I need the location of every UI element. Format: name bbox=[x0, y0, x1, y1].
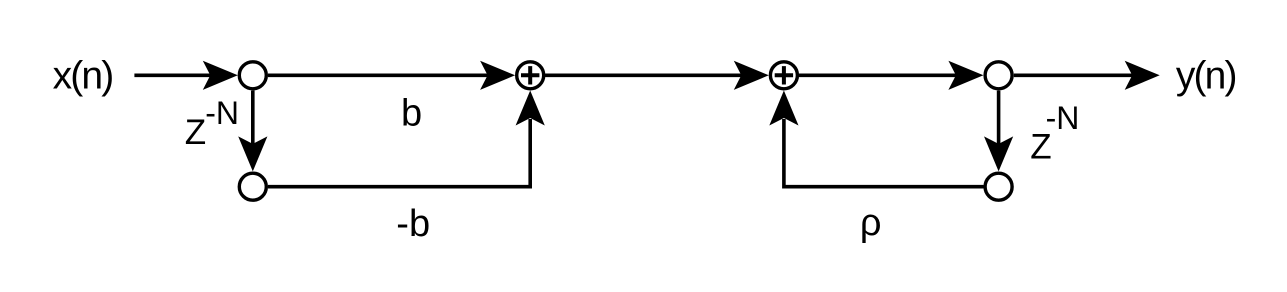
feedback wire lower-right node to sum2 bbox=[784, 119, 984, 187]
wire sum1 to sum2 bbox=[545, 74, 743, 78]
wire node1 to sum1 bbox=[268, 74, 490, 78]
wire node1 down to delay node bbox=[251, 91, 255, 145]
wire node2 down to delay node bbox=[997, 91, 1001, 145]
plus sign in sum1 bbox=[521, 66, 539, 84]
svg-text:-N: -N bbox=[205, 95, 239, 131]
svg-text:y(n): y(n) bbox=[1176, 54, 1236, 97]
arrow into sum2 bbox=[734, 61, 769, 90]
wire sum2 to node2 bbox=[799, 74, 959, 78]
node 2 (top-right pick-off circle) bbox=[985, 62, 1012, 89]
wire node2 to output bbox=[1014, 74, 1134, 78]
plus sign in sum2 bbox=[775, 66, 793, 84]
arrow into sum1 bbox=[480, 61, 515, 90]
arrow down into lower-right node bbox=[984, 136, 1013, 171]
svg-text:x(n): x(n) bbox=[53, 54, 113, 97]
output arrow bbox=[1125, 61, 1160, 90]
wire input to node1 bbox=[134, 74, 212, 78]
svg-text:ρ: ρ bbox=[860, 202, 882, 244]
lower-right node circle bbox=[985, 173, 1012, 200]
summing junction 2 bbox=[770, 62, 797, 89]
svg-text:-N: -N bbox=[1046, 100, 1080, 136]
arrow into node2 bbox=[948, 61, 983, 90]
svg-text:b: b bbox=[401, 93, 422, 135]
lower-left node circle bbox=[239, 173, 266, 200]
svg-text:Z: Z bbox=[185, 113, 206, 152]
arrow down into lower-left node bbox=[238, 136, 267, 171]
arrow into node1 bbox=[203, 61, 238, 90]
arrow up into sum2 bbox=[769, 91, 798, 126]
arrow up into sum1 bbox=[516, 91, 545, 126]
node 1 (top-left pick-off circle) bbox=[239, 62, 266, 89]
feedforward wire lower-left node to sum1 bbox=[268, 119, 530, 187]
svg-text:-b: -b bbox=[396, 203, 430, 245]
summing junction 1 bbox=[517, 62, 544, 89]
